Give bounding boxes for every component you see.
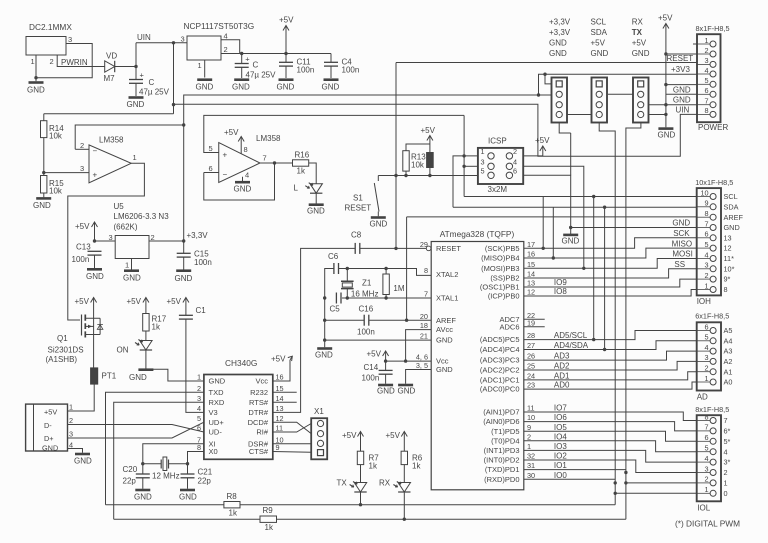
junction jack ground	[34, 76, 37, 79]
svg-text:IO2: IO2	[554, 452, 567, 461]
wire AD5/SCL to AD pin 6	[524, 331, 697, 340]
svg-text:RTS#: RTS#	[249, 398, 269, 407]
wire P3 pin4 ground	[649, 114, 666, 116]
svg-text:2: 2	[50, 57, 54, 66]
svg-text:9: 9	[527, 423, 531, 432]
svg-text:X0: X0	[209, 447, 218, 456]
svg-text:POWER: POWER	[698, 123, 728, 132]
svg-text:2: 2	[704, 46, 708, 55]
svg-text:GND: GND	[196, 83, 214, 92]
svg-text:1k: 1k	[369, 462, 378, 471]
resistor R7 1k	[357, 451, 363, 464]
svg-text:100n: 100n	[72, 255, 90, 264]
wire RESET bus to POWER pin 3	[396, 62, 697, 64]
wire USB shield ground	[68, 449, 83, 453]
svg-text:16 MHz: 16 MHz	[351, 289, 379, 298]
svg-text:8x1F-H8,5: 8x1F-H8,5	[695, 405, 729, 414]
diode VD M7	[104, 52, 118, 84]
svg-text:6: 6	[704, 86, 708, 95]
svg-text:4: 4	[705, 343, 709, 352]
svg-text:1: 1	[197, 373, 201, 382]
wire IOL pin 2 from riser	[626, 482, 697, 484]
junction C16 ground	[323, 319, 326, 322]
junction ICSP pin1	[462, 154, 465, 157]
wire to output cap	[241, 54, 243, 64]
svg-text:14: 14	[276, 394, 284, 403]
svg-text:VD: VD	[106, 52, 117, 61]
svg-text:1: 1	[125, 261, 129, 270]
svg-text:6: 6	[705, 230, 709, 239]
junction UIN at C	[134, 65, 137, 68]
+5V arrow main rail	[279, 16, 294, 54]
wire opamp2 +input to +3.3V	[204, 115, 464, 152]
wire MISO riser	[552, 207, 554, 258]
fuse PT1	[91, 368, 117, 384]
ground S1	[370, 218, 388, 229]
wire jack pin2 PWRIN to diode	[57, 55, 104, 67]
svg-text:10: 10	[700, 188, 708, 197]
wire R13 top to +5V	[406, 144, 430, 151]
wire C14 to ground	[385, 374, 387, 384]
+5V arrow C1	[167, 297, 189, 315]
svg-text:IO1: IO1	[554, 461, 567, 470]
junction riser IO2 row	[624, 471, 627, 474]
svg-text:GND: GND	[277, 83, 295, 92]
capacitor C5	[336, 293, 341, 304]
svg-text:1: 1	[705, 485, 709, 494]
svg-text:15: 15	[527, 260, 535, 269]
net labels IOH left	[672, 218, 693, 269]
wire to C14	[385, 361, 387, 370]
svg-text:5*: 5*	[724, 437, 731, 446]
svg-text:DC2.1MMX: DC2.1MMX	[29, 22, 72, 32]
wire UIN vertical	[135, 43, 137, 80]
ATmega ADC7 ADC6 stubs	[524, 318, 545, 320]
svg-text:6: 6	[513, 166, 517, 175]
svg-text:(INT1)PD3: (INT1)PD3	[484, 446, 520, 455]
svg-text:C21: C21	[198, 468, 213, 477]
svg-text:(AIN0)PD6: (AIN0)PD6	[483, 417, 519, 426]
CH340G pin labels	[197, 373, 284, 456]
svg-text:3: 3	[80, 164, 84, 173]
svg-text:M7: M7	[104, 74, 116, 83]
diode reset protection	[426, 152, 434, 176]
wire CH340 GND pin to ground	[146, 369, 204, 381]
wire DCD to X1	[273, 422, 311, 433]
svg-text:IO4: IO4	[554, 432, 567, 441]
wire +3V3 into P1 pin1	[545, 74, 552, 84]
connector USB	[26, 403, 73, 453]
junction TX LED bus	[359, 503, 362, 506]
wire IO0 to riser	[524, 478, 615, 480]
svg-text:12: 12	[724, 244, 732, 253]
svg-text:3: 3	[704, 56, 708, 65]
svg-text:1: 1	[704, 36, 708, 45]
svg-text:+: +	[140, 71, 145, 80]
svg-text:8: 8	[424, 266, 428, 275]
svg-text:+5V: +5V	[386, 431, 401, 440]
junction GND line	[569, 226, 572, 229]
svg-text:A2: A2	[724, 357, 733, 366]
resistor R6 1k	[401, 451, 407, 464]
svg-text:GND: GND	[179, 493, 197, 502]
ground jack GND	[27, 83, 45, 95]
svg-text:3: 3	[480, 157, 484, 166]
LED L 3V3 indicator	[305, 183, 322, 194]
svg-text:R8: R8	[227, 492, 238, 501]
wire AD2 to AD pin 3	[524, 361, 697, 370]
junction divider midpoint	[42, 171, 45, 174]
svg-text:+5V: +5V	[75, 297, 90, 306]
wire R232 stub	[273, 391, 297, 393]
wire SCK riser	[542, 197, 544, 249]
svg-text:(RXD)PD0: (RXD)PD0	[484, 475, 519, 484]
ground ICSP	[562, 235, 580, 246]
wire C15 to ground	[183, 257, 185, 269]
wire +5V output rail	[221, 53, 331, 55]
svg-text:(SCK)PB5: (SCK)PB5	[485, 244, 520, 253]
junction Z1 bottom	[346, 296, 349, 299]
wire TX LED to bus	[360, 492, 362, 505]
wire C11 to ground	[285, 66, 287, 78]
svg-text:4: 4	[705, 454, 709, 463]
transistor Q1 Si2301DS	[46, 315, 103, 365]
junction +3.3V branch	[537, 93, 540, 96]
svg-text:21: 21	[420, 332, 428, 341]
svg-text:(OSC1)PB1: (OSC1)PB1	[480, 283, 520, 292]
connector X1	[311, 407, 327, 459]
connector IOL 8x1F	[695, 405, 730, 502]
svg-text:10: 10	[527, 413, 535, 422]
LED ON indicator	[135, 340, 152, 351]
wire AD3 to AD pin 4	[524, 351, 697, 360]
svg-text:14: 14	[527, 270, 535, 279]
svg-text:D-: D-	[44, 421, 52, 430]
svg-text:GND: GND	[549, 39, 567, 48]
svg-text:GND: GND	[632, 49, 650, 58]
svg-text:5: 5	[705, 333, 709, 342]
svg-text:1: 1	[724, 479, 728, 488]
svg-text:31: 31	[527, 461, 535, 470]
svg-text:−: −	[223, 170, 228, 179]
junction ground pin7 chain	[664, 103, 667, 106]
junction +5V pin2	[664, 52, 667, 55]
capacitor C11 100n	[279, 62, 293, 66]
ATmega328 left pin labels	[416, 240, 462, 374]
svg-text:2: 2	[224, 45, 228, 54]
svg-text:X1: X1	[314, 407, 324, 416]
svg-text:1: 1	[198, 61, 202, 70]
svg-text:1k: 1k	[412, 462, 421, 471]
resistor R9 1k	[260, 516, 277, 522]
svg-text:7: 7	[705, 219, 709, 228]
junction ICSP pin3	[462, 165, 465, 168]
svg-text:2: 2	[527, 432, 531, 441]
capacitor C1	[179, 315, 193, 319]
svg-text:GND: GND	[175, 274, 193, 283]
svg-text:TX: TX	[337, 479, 348, 488]
svg-text:(SS)PB2: (SS)PB2	[490, 274, 519, 283]
svg-text:GND: GND	[724, 223, 740, 232]
svg-text:C: C	[149, 78, 155, 87]
wire R13 bottom	[405, 171, 407, 175]
svg-text:GND: GND	[123, 274, 141, 283]
wire +5V to POWER pin 2	[666, 53, 697, 55]
wire Vcc row	[386, 360, 432, 362]
svg-text:C14: C14	[364, 363, 379, 372]
svg-text:A0: A0	[724, 378, 733, 387]
wire ICSP MISO stub	[453, 156, 478, 207]
svg-text:+5V: +5V	[44, 408, 57, 417]
svg-text:GND: GND	[672, 218, 690, 227]
wire IO1 to riser	[524, 469, 626, 471]
svg-text:DCD#: DCD#	[248, 418, 269, 427]
svg-text:(ADC3)PC3: (ADC3)PC3	[480, 356, 520, 365]
svg-text:GND: GND	[27, 86, 45, 95]
svg-text:1k: 1k	[297, 167, 306, 176]
connector P2 I2C header	[592, 78, 608, 123]
svg-text:+5V: +5V	[632, 39, 647, 48]
wire RESET riser	[395, 63, 397, 249]
svg-text:GND: GND	[562, 237, 580, 246]
junction RESET pin29	[394, 247, 397, 250]
svg-text:8: 8	[197, 443, 201, 452]
svg-text:2: 2	[80, 141, 84, 150]
svg-text:IOH: IOH	[697, 297, 711, 306]
svg-text:+5V: +5V	[591, 39, 606, 48]
wire opamp2 pin4 ground stub	[242, 177, 244, 181]
svg-text:R9: R9	[263, 506, 274, 515]
junction MOSI PB3	[582, 267, 585, 270]
svg-text:+5V: +5V	[279, 16, 294, 25]
svg-text:GND: GND	[33, 201, 51, 210]
svg-text:8: 8	[724, 285, 728, 294]
svg-text:+5V: +5V	[127, 297, 142, 306]
wire R6 to RX LED	[403, 465, 405, 483]
wire USB D+ to CH340 UD+	[68, 422, 204, 438]
svg-text:GND: GND	[673, 96, 691, 105]
+5V arrow R7	[342, 431, 364, 451]
wire output cap to ground	[241, 67, 243, 78]
svg-text:25: 25	[527, 362, 535, 371]
svg-text:C16: C16	[359, 305, 374, 314]
wire AVcc to Vcc	[406, 330, 432, 362]
svg-text:16: 16	[276, 373, 284, 382]
ground USB	[74, 454, 92, 466]
svg-text:MISO: MISO	[672, 239, 692, 248]
svg-text:IOL: IOL	[697, 504, 710, 513]
svg-text:GND: GND	[42, 444, 58, 453]
wire C13 to ground	[94, 255, 96, 268]
svg-text:C1: C1	[196, 306, 207, 315]
svg-text:SDA: SDA	[724, 202, 739, 211]
wire U5 output +3.3V	[149, 240, 184, 242]
svg-text:100n: 100n	[194, 258, 212, 267]
wire divider to opamp1 +input	[44, 172, 89, 174]
svg-text:AD0: AD0	[554, 381, 570, 390]
svg-text:7: 7	[705, 423, 709, 432]
capacitor C 47u output	[235, 55, 251, 68]
svg-text:(662K): (662K)	[114, 223, 138, 232]
svg-text:GND: GND	[549, 49, 567, 58]
junction riser IO1 row	[614, 481, 617, 484]
svg-text:SCK: SCK	[673, 229, 690, 238]
svg-text:GND: GND	[134, 493, 152, 502]
svg-text:S1: S1	[353, 194, 363, 203]
junction Vcc C14	[384, 359, 387, 362]
connector POWER 8x1F	[696, 24, 730, 122]
wire GND21 row	[325, 339, 432, 341]
svg-text:12: 12	[527, 288, 535, 297]
svg-text:D+: D+	[44, 434, 54, 443]
+5V arrow opamp2	[224, 128, 244, 154]
svg-text:47µ 25V: 47µ 25V	[246, 71, 277, 80]
regulator NCP1117 body	[187, 36, 221, 60]
wire IO3 to IOL pin 4	[524, 450, 697, 462]
svg-text:3: 3	[68, 35, 72, 44]
wire AD4/SDA to AD pin 5	[524, 341, 697, 350]
svg-text:1: 1	[133, 153, 137, 162]
wire R17 to ON LED	[145, 331, 147, 341]
connector AD 6x1F	[695, 312, 732, 391]
svg-text:100n: 100n	[297, 66, 315, 75]
svg-text:16: 16	[527, 250, 535, 259]
svg-text:2: 2	[705, 475, 709, 484]
capacitor C 47u input	[129, 71, 145, 84]
LED RX	[393, 482, 410, 493]
wire U5 input	[95, 240, 116, 242]
svg-text:8: 8	[704, 106, 708, 115]
svg-text:+: +	[93, 171, 98, 180]
svg-text:A5: A5	[724, 326, 733, 335]
svg-text:(ADC0)PC0: (ADC0)PC0	[480, 385, 520, 394]
ATmega328 right pin labels	[480, 240, 535, 484]
svg-text:A1: A1	[724, 367, 733, 376]
wire IO8 to IOH 8	[524, 290, 697, 297]
op-amp U1B LM358	[209, 134, 282, 183]
svg-text:IO6: IO6	[554, 413, 567, 422]
wire RI to X1	[273, 424, 311, 433]
wire XI to crystal	[143, 444, 204, 464]
svg-text:AVcc: AVcc	[436, 325, 453, 334]
svg-text:+5V: +5V	[167, 297, 182, 306]
svg-text:27: 27	[527, 341, 535, 350]
ground opamp2	[234, 182, 252, 193]
wire ICSP GND	[523, 175, 571, 234]
svg-text:5: 5	[209, 144, 213, 153]
svg-text:9: 9	[276, 443, 280, 452]
junction diode reset row	[428, 174, 431, 177]
ground C input cap	[127, 98, 145, 110]
junction RESET row	[394, 174, 397, 177]
svg-text:0: 0	[724, 489, 728, 498]
svg-text:R232: R232	[250, 388, 268, 397]
regulator U5 body	[115, 236, 149, 259]
svg-text:−: −	[93, 147, 98, 156]
svg-text:+3V3: +3V3	[671, 65, 690, 74]
wire RTS stub	[273, 401, 297, 403]
svg-text:ADC6: ADC6	[499, 322, 519, 331]
junction UIN bus	[172, 103, 175, 106]
wire to C20	[142, 464, 144, 474]
svg-text:LM6206-3.3 N3: LM6206-3.3 N3	[114, 212, 170, 221]
svg-text:AD3: AD3	[554, 352, 570, 361]
capacitor C6	[334, 263, 339, 274]
svg-text:AREF: AREF	[724, 213, 744, 222]
svg-text:5: 5	[197, 414, 201, 423]
svg-text:1: 1	[705, 374, 709, 383]
svg-text:TXD: TXD	[209, 388, 225, 397]
svg-text:(ADC1)PC1: (ADC1)PC1	[480, 376, 520, 385]
junction 1M top	[384, 267, 387, 270]
junction RXD IO1	[624, 481, 627, 484]
svg-text:Z1: Z1	[362, 279, 372, 288]
wire to C11	[285, 54, 287, 63]
ground C13	[86, 269, 104, 281]
svg-text:+5V: +5V	[535, 136, 550, 145]
wire RXD riser	[626, 123, 641, 520]
wire UIN bus to POWER pin 8	[174, 104, 698, 156]
svg-text:13: 13	[724, 233, 732, 242]
svg-text:RX: RX	[632, 18, 644, 27]
svg-text:(ADC2)PC2: (ADC2)PC2	[480, 366, 520, 375]
IC CH340G body	[204, 375, 273, 460]
svg-text:2: 2	[197, 384, 201, 393]
svg-text:GND: GND	[127, 100, 145, 109]
junction C13	[93, 239, 96, 242]
svg-text:5: 5	[705, 240, 709, 249]
wire C20 to ground	[142, 478, 144, 489]
connector IOH 10x1F	[695, 178, 743, 295]
wire crystal left node	[143, 463, 161, 465]
wire AREF row	[369, 319, 431, 321]
wire LED L to ground	[315, 193, 317, 203]
wire USB D- to CH340 UD-	[68, 425, 204, 433]
+5V arrow R17	[127, 297, 149, 314]
svg-text:5: 5	[705, 444, 709, 453]
op-amp U1A LM358	[80, 136, 137, 183]
svg-text:ON: ON	[117, 346, 129, 355]
wire SDA riser	[604, 207, 606, 349]
wire CH340 Vcc to +5V	[273, 360, 290, 381]
wire opamp1 output to Q1 gate	[68, 163, 145, 320]
wire P2 to P3	[608, 93, 633, 95]
svg-text:5: 5	[480, 166, 484, 175]
wire +3V3 to POWER pin 4	[539, 74, 698, 95]
svg-text:3: 3	[181, 35, 185, 44]
svg-text:+5V: +5V	[658, 14, 673, 23]
svg-text:C20: C20	[123, 465, 138, 474]
svg-text:47µ 25V: 47µ 25V	[139, 88, 170, 97]
svg-text:3: 3	[705, 261, 709, 270]
svg-text:RI#: RI#	[256, 428, 269, 437]
wire opamp2 feedback	[204, 163, 275, 200]
+5V arrow R6	[386, 431, 408, 451]
wire TXD to R8	[106, 392, 204, 505]
junction output cap	[240, 52, 243, 55]
resistor R13 10k	[403, 151, 409, 171]
svg-text:22p: 22p	[123, 477, 137, 486]
IC ATmega328 body	[431, 242, 524, 490]
wire XTAL2 row	[339, 269, 431, 276]
svg-text:+5V: +5V	[271, 355, 286, 364]
junction SCL	[592, 195, 595, 198]
ground C11	[277, 80, 295, 92]
svg-text:5: 5	[704, 76, 708, 85]
svg-text:+3,3V: +3,3V	[187, 231, 209, 240]
wire R14 top lead	[43, 114, 45, 121]
svg-text:3: 3	[69, 430, 73, 439]
